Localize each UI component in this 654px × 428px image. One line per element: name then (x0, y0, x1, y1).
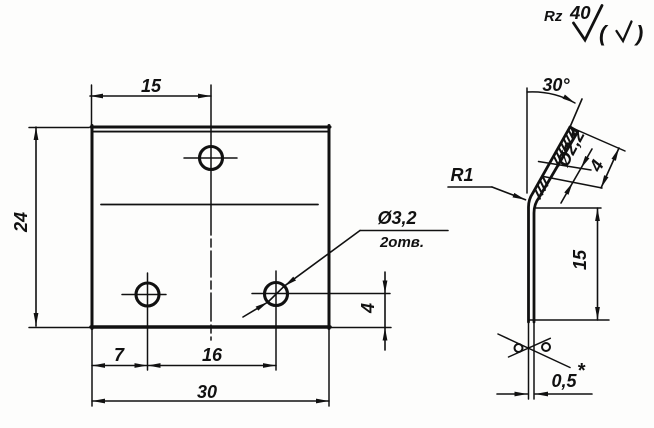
svg-text:30: 30 (197, 382, 217, 402)
svg-text:): ) (634, 21, 643, 46)
svg-text:2отв.: 2отв. (379, 234, 424, 251)
svg-text:Ø3,2: Ø3,2 (377, 208, 416, 228)
svg-text:15: 15 (570, 249, 590, 270)
svg-text:16: 16 (202, 345, 223, 365)
svg-text:40: 40 (569, 2, 591, 23)
svg-text:0,5: 0,5 (551, 371, 577, 391)
svg-text:4: 4 (358, 303, 378, 314)
svg-text:30°: 30° (542, 75, 570, 95)
svg-text:*: * (577, 360, 586, 382)
svg-text:4: 4 (585, 157, 608, 176)
svg-text:(: ( (599, 21, 609, 46)
svg-text:R1: R1 (450, 165, 473, 185)
svg-text:15: 15 (141, 76, 162, 96)
svg-text:7: 7 (114, 345, 125, 365)
svg-text:24: 24 (11, 212, 31, 233)
svg-text:Rz: Rz (544, 8, 563, 25)
